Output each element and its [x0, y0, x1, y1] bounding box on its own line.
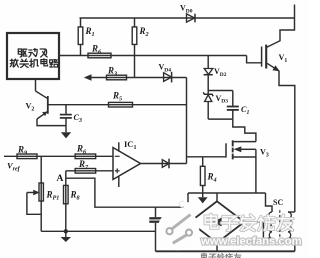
bridge rectifier	[190, 201, 245, 243]
transistor V2 (PNP)	[35, 79, 37, 91]
diode VD5 (op-amp output, unlabeled)	[162, 160, 169, 168]
watermark logo circle	[158, 209, 200, 251]
wire: source/R4 ground rail	[188, 192, 266, 194]
resistor R6 (gate drive)	[88, 53, 111, 58]
watermark text	[205, 216, 216, 224]
diode VD4	[164, 73, 172, 82]
ground under R4 rail	[202, 193, 204, 197]
wire: VD2 cathode rail to C1	[208, 90, 233, 92]
svg-text:www.elecfans.com: www.elecfans.com	[200, 236, 302, 248]
junction dot	[64, 229, 68, 233]
diode VD3 (zener)	[207, 91, 209, 95]
wire: bridge left vertical	[187, 193, 189, 222]
wire: ground rail bottom left	[41, 230, 155, 232]
wire: rail to V3 drain (stepped)	[233, 119, 256, 142]
wire: V3 gate line	[187, 156, 227, 158]
wire: feedback from bridge to node A	[66, 178, 188, 207]
svg-text:SC: SC	[273, 198, 283, 207]
wire: V2 base / R5 line	[49, 104, 187, 106]
resistor R5	[109, 102, 133, 107]
diode VD0	[187, 14, 195, 22]
wire: op-amp output	[141, 163, 187, 165]
wire: VD3/C1 bottom rail	[208, 118, 233, 120]
ground under C3	[61, 132, 71, 138]
resistor R7	[66, 170, 113, 172]
capacitor C2	[155, 207, 157, 217]
diode VD2 (zener)	[207, 56, 209, 69]
wire: R3 line with left arrow	[88, 77, 187, 79]
current transformer SC	[266, 193, 273, 212]
resistor R9	[4, 155, 113, 157]
wire: top supply rail	[80, 17, 295, 19]
resistor R6	[75, 154, 96, 159]
capacitor C1	[232, 91, 234, 107]
wire: V1 emitter down to SC	[279, 71, 295, 212]
wire: vertical net VD4/R5/opamp-diode junction	[186, 78, 188, 164]
svg-text:A: A	[57, 174, 64, 184]
box: drive and soft-shutdown circuit	[7, 33, 59, 79]
wire: node A vertical	[65, 171, 67, 232]
MOSFET V3	[225, 143, 227, 157]
wire: bottom return rail	[156, 250, 295, 252]
resistor R2	[134, 18, 136, 27]
watermark bottom clipped text	[201, 253, 241, 258]
IGBT V1	[261, 47, 263, 67]
op-amp IC1	[113, 148, 141, 180]
ground symbol bottom	[65, 231, 67, 237]
resistor R1	[80, 18, 82, 27]
resistor R3	[107, 75, 127, 80]
wire: gate drive line from box to IGBT	[59, 55, 247, 57]
resistor R8	[64, 185, 69, 203]
wire: supply stub top right	[294, 5, 296, 19]
capacitor C3	[65, 105, 67, 115]
resistor R4	[202, 157, 204, 167]
potentiometer RP1	[40, 156, 42, 231]
